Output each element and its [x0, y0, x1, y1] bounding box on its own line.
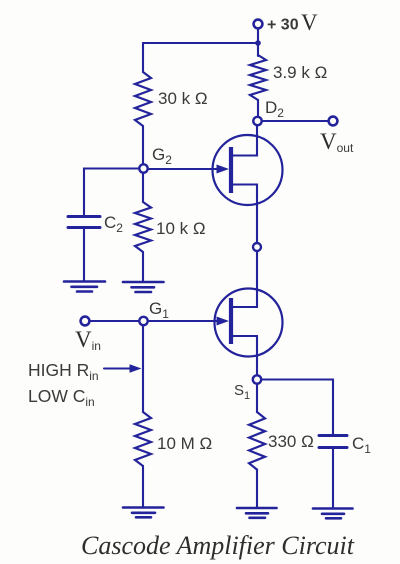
node G2 [139, 164, 147, 172]
ground under 10M [123, 508, 164, 518]
wire G2 to C2 [84, 169, 139, 215]
svg-text:V: V [301, 10, 318, 35]
node junction dot at top [255, 40, 261, 46]
node D2 [253, 117, 261, 125]
capacitor C2 [68, 215, 100, 218]
svg-text:10 M Ω: 10 M Ω [157, 434, 212, 453]
wire left branch down to R 30k [142, 43, 144, 72]
terminal Vout [329, 117, 338, 126]
resistor 10k [142, 173, 144, 202]
annotation arrow [104, 367, 134, 369]
svg-text:S1: S1 [234, 382, 250, 402]
node S1 [253, 375, 261, 383]
svg-text:30 k Ω: 30 k Ω [158, 89, 208, 108]
svg-text:D2: D2 [265, 98, 284, 120]
svg-text:+ 30: + 30 [267, 17, 299, 34]
resistor 10M [135, 412, 151, 466]
capacitor C1 [319, 434, 347, 437]
terminal Vin [81, 317, 90, 326]
resistor 30k zigzag [135, 72, 151, 126]
wire D2 to Vout [262, 120, 329, 122]
ground under C1 [313, 509, 353, 519]
svg-text:G1: G1 [149, 299, 169, 321]
wire from +30V terminal down [257, 29, 259, 56]
svg-text:3.9 k Ω: 3.9 k Ω [273, 63, 327, 82]
node between JFETs [253, 243, 261, 251]
wire 3.9k bottom to D2 [257, 100, 259, 117]
svg-text:HIGH Rin: HIGH Rin [28, 360, 99, 383]
svg-text:Cascode Amplifier Circuit: Cascode Amplifier Circuit [81, 531, 355, 560]
ground under 10k [123, 282, 164, 292]
svg-text:C2: C2 [104, 213, 123, 235]
svg-text:Vout: Vout [320, 129, 354, 155]
resistor 3.9k zigzag [250, 55, 266, 100]
power terminal +30V [254, 20, 263, 29]
op JFET Q2 upper [213, 125, 283, 243]
wire horizontal top [143, 42, 258, 44]
wire S1 to C1 [261, 380, 333, 435]
wire G1 down to 10M [142, 325, 144, 412]
wire 30k bottom to G2 [142, 126, 144, 164]
node G1 [139, 317, 147, 325]
ground under 330 [237, 508, 277, 518]
svg-text:Vin: Vin [75, 327, 101, 353]
lower JFET Q1 [215, 289, 283, 376]
svg-text:C1: C1 [352, 434, 371, 456]
wire G2 to upper JFET gate [148, 168, 222, 170]
svg-text:LOW Cin: LOW Cin [28, 386, 95, 409]
resistor 330 [256, 384, 258, 412]
svg-text:G2: G2 [152, 145, 172, 167]
ground under C2 [64, 282, 105, 292]
svg-text:10 k Ω: 10 k Ω [156, 219, 206, 238]
wire G1 to lower JFET gate [148, 320, 222, 322]
svg-text:330 Ω: 330 Ω [268, 432, 314, 451]
